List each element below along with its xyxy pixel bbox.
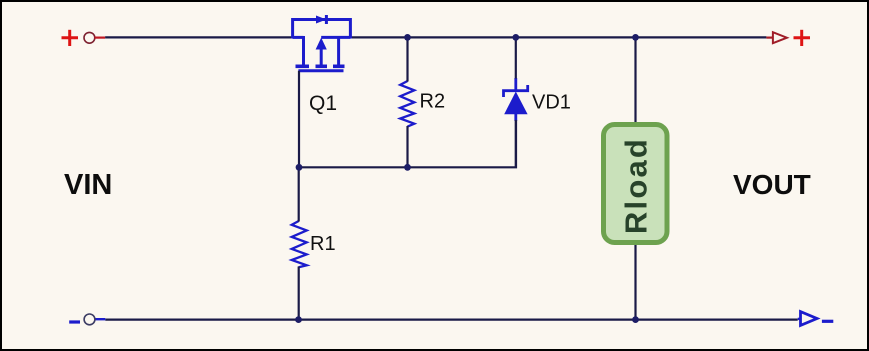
junction dot: Rload bottom [632,316,639,323]
svg-text:R1: R1 [310,233,336,255]
load resistor Rload [604,125,668,243]
output arrow (top-right, maroon) [773,32,787,43]
junction dot: gate node [296,164,303,171]
terminal minus (bottom-right, blue) [822,320,833,323]
zener diode VD1 [504,78,528,121]
svg-text:Rload: Rload [619,137,654,234]
junction dot: VD1 top [512,34,519,41]
body diode of Q1 [293,15,351,39]
terminal plus (top-left, red) [62,30,79,46]
wire: R1 bottom lead [298,267,300,320]
wire: top rail from input circle to Q1 source [105,36,303,38]
transistor Q1 (P-MOSFET) [293,36,351,71]
junction dot: R2 top [404,34,411,41]
svg-text:VOUT: VOUT [733,169,811,200]
output terminal circle (bottom-left) [84,314,95,325]
output arrow (bottom-right, blue) [801,312,818,326]
junction dot: R2 bottom [404,164,411,171]
svg-text:Q1: Q1 [309,92,337,115]
wire: gate of Q1 down to junction node [298,71,300,168]
wire: Rload top lead [634,37,636,125]
svg-text:VIN: VIN [64,169,112,201]
wire: middle horizontal node wire [299,120,516,167]
resistor R1 [292,221,307,267]
blue pin stub of VIN- port [95,318,106,320]
wire: VD1 top lead [515,37,517,78]
wire: R1 top lead [298,167,300,221]
junction dot: Rload top [632,34,639,41]
svg-text:R2: R2 [420,91,446,113]
wire: top rail from Q1 drain to output arrow [350,36,766,38]
blue pin stub of VOUT- port [798,318,801,320]
red pin stub of input port [95,36,106,38]
terminal minus (bottom-left, blue) [69,320,80,323]
wire: R2 bottom lead [406,126,408,167]
wire: R2 top lead [406,37,408,81]
junction dot: R1 bottom [295,316,302,323]
input terminal circle (top-left) [84,32,95,43]
terminal plus (top-right, red) [794,30,811,46]
wire: Rload bottom lead [634,242,636,320]
svg-text:VD1: VD1 [532,92,571,114]
resistor R2 [400,81,414,127]
red pin stub of VOUT+ port [766,36,773,38]
wire: VD1 bottom lead [515,120,517,168]
wire: bottom rail [105,319,797,321]
